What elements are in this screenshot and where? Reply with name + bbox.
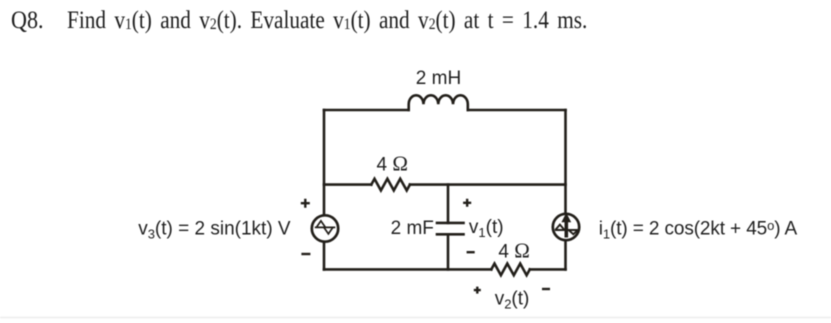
- wire: capacitor branch upper: [447, 185, 450, 223]
- voltage source V3 AC wave symbol: [315, 221, 336, 234]
- svg-text:2 mF: 2 mF: [391, 218, 434, 239]
- wire: bottom left segment: [324, 268, 491, 271]
- minus sign at capacitor v1: [467, 251, 475, 253]
- wire: capacitor branch lower: [447, 234, 450, 269]
- bottom faint divider line: [0, 317, 831, 318]
- plus sign at v2: [474, 287, 481, 294]
- wire: bottom right segment: [530, 268, 566, 271]
- minus sign at v2: [542, 288, 550, 290]
- wire: left vertical: [323, 110, 326, 269]
- wire: top-right segment: [468, 109, 566, 112]
- plus sign at voltage source V3: [301, 199, 310, 208]
- inductor L 2 mH: [409, 95, 468, 110]
- svg-text:v3(t) = 2 sin(1kt) V: v3(t) = 2 sin(1kt) V: [138, 218, 291, 241]
- svg-text:4 Ω: 4 Ω: [377, 152, 408, 176]
- wire: right vertical: [564, 110, 567, 269]
- wire: middle branch left: [324, 183, 371, 186]
- voltage source V3 circle: [312, 215, 338, 241]
- current source I1 circle: [553, 213, 579, 240]
- title line: [11, 8, 44, 33]
- resistor R1 4ohm middle: [371, 179, 410, 191]
- svg-text:2 mH: 2 mH: [416, 68, 461, 89]
- wire: middle branch right: [410, 183, 566, 186]
- resistor R2 4ohm bottom: [491, 264, 530, 276]
- wire: top-left segment: [324, 109, 409, 112]
- svg-text:v1(t): v1(t): [469, 217, 504, 240]
- current source I1 arrow: [561, 213, 571, 238]
- svg-text:4 Ω: 4 Ω: [498, 239, 529, 263]
- minus sign at voltage source V3: [301, 253, 310, 255]
- current source I1 AC wave symbol: [555, 225, 578, 235]
- svg-text:i1(t) = 2 cos(2kt + 45o) A: i1(t) = 2 cos(2kt + 45o) A: [599, 218, 798, 242]
- capacitor C 2 mF plates: [437, 223, 464, 234]
- svg-text:v2(t): v2(t): [495, 288, 530, 311]
- plus sign at capacitor v1: [463, 199, 471, 207]
